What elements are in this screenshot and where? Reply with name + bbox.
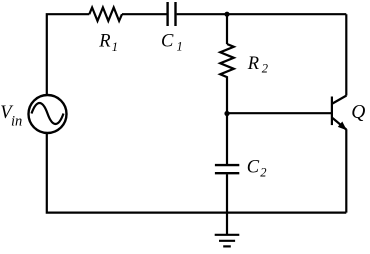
svg-text:Q: Q xyxy=(351,102,365,123)
svg-text:R: R xyxy=(98,32,110,52)
label R2 xyxy=(247,54,268,75)
svg-text:in: in xyxy=(11,114,22,130)
emitter diagonal xyxy=(333,118,347,130)
label Q xyxy=(351,102,365,123)
svg-text:R: R xyxy=(247,54,259,74)
wire R2 to middle junction xyxy=(226,81,228,114)
collector diagonal xyxy=(333,96,347,104)
node junction top (C1/R2) xyxy=(224,12,229,17)
svg-text:1: 1 xyxy=(177,40,183,54)
wire C1 to top-right corner xyxy=(177,13,347,15)
wire C2 down to ground xyxy=(226,174,228,234)
svg-text:1: 1 xyxy=(112,40,118,54)
label C1 xyxy=(161,31,183,53)
label C2 xyxy=(247,158,267,180)
wire top-left from Vin up and right to R1 xyxy=(47,14,90,95)
svg-text:2: 2 xyxy=(262,61,268,75)
capacitor C2 xyxy=(215,165,239,173)
wire base (junction to transistor) xyxy=(227,112,331,114)
wire R1 to C1 xyxy=(122,13,167,15)
wire Vin bottom to bottom-left corner and along bottom xyxy=(47,133,347,212)
capacitor C1 xyxy=(168,2,176,26)
emitter arrowhead xyxy=(338,122,347,131)
resistor R1 xyxy=(89,8,122,21)
wire junction down to R2 xyxy=(226,14,228,44)
svg-text:C: C xyxy=(247,158,260,178)
label Vin xyxy=(0,103,22,130)
transistor Q xyxy=(332,96,347,131)
svg-text:C: C xyxy=(161,31,174,51)
base bar xyxy=(331,97,333,126)
wire collector up to top-right corner xyxy=(345,14,347,95)
wire emitter down to bottom-right corner xyxy=(345,129,347,212)
ground xyxy=(215,235,240,247)
source Vin xyxy=(29,95,67,133)
node junction middle (R2/C2/base) xyxy=(224,111,229,116)
label R1 xyxy=(98,32,118,54)
wire middle junction down to C2 xyxy=(226,114,228,165)
svg-text:2: 2 xyxy=(260,166,266,180)
resistor R2 xyxy=(220,44,234,81)
